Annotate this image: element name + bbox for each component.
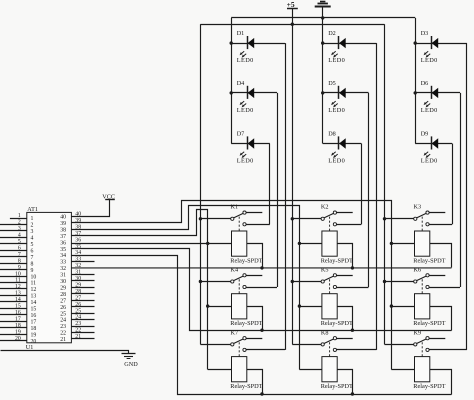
- svg-text:Relay-SPDT: Relay-SPDT: [321, 383, 353, 390]
- wire pin 6 lead: [0, 250, 27, 252]
- wire D4 cathode drop: [277, 93, 279, 287]
- wire K1 NC to LED: [246, 224, 270, 226]
- pin number 7 inside: [31, 255, 34, 261]
- svg-text:LED0: LED0: [421, 57, 438, 64]
- pin number 20 outside: [15, 336, 21, 342]
- wire K4 coil left: [208, 306, 232, 308]
- pin number 31 outside: [75, 270, 81, 276]
- pin number 40 inside: [60, 215, 66, 221]
- svg-text:34: 34: [60, 253, 66, 259]
- relay K5 label: [321, 266, 329, 273]
- wire pin 14 lead: [0, 301, 27, 303]
- svg-text:K3: K3: [414, 204, 422, 211]
- relay K5 switch contacts: [321, 274, 336, 289]
- svg-text:18: 18: [31, 326, 37, 332]
- relay K1 value label: [230, 257, 262, 264]
- relay K2 label: [321, 204, 329, 211]
- pin number 21 inside: [60, 337, 66, 343]
- node K6 coil-left junction: [390, 304, 393, 307]
- svg-text:3: 3: [18, 226, 21, 232]
- wire D6 cathode drop: [460, 93, 462, 287]
- wire pin 25 stub: [71, 313, 94, 315]
- pin number 39 inside: [60, 221, 66, 227]
- pin number 23 outside: [75, 321, 81, 327]
- svg-text:D8: D8: [328, 131, 336, 138]
- pin number 17 inside: [31, 319, 37, 325]
- relay K6 switch contacts: [414, 274, 429, 289]
- svg-text:LED0: LED0: [237, 157, 254, 164]
- node D1 anode junction: [230, 41, 233, 44]
- pin number 15 outside: [15, 304, 21, 310]
- wire K6 common: [385, 281, 414, 283]
- svg-text:24: 24: [60, 318, 66, 324]
- wire K7 coil left: [208, 369, 232, 371]
- wire K4 NC to LED: [246, 287, 277, 289]
- svg-text:K4: K4: [231, 266, 239, 273]
- pin number 10 inside: [31, 274, 37, 280]
- svg-text:9: 9: [31, 268, 34, 274]
- relay K4 label: [231, 266, 239, 273]
- IC U1 AT1 body: [26, 206, 72, 351]
- pin number 36 inside: [60, 240, 66, 246]
- wire D2 cathode drop: [376, 43, 378, 350]
- pin number 21 outside: [75, 334, 81, 340]
- svg-text:10: 10: [31, 274, 37, 280]
- relay K6 value label: [413, 320, 445, 327]
- wire pin 13 lead: [0, 295, 27, 297]
- svg-text:27: 27: [60, 298, 66, 304]
- relay K8 actuation dashed link: [329, 342, 331, 356]
- pin number 1 outside: [18, 213, 21, 219]
- svg-text:LED0: LED0: [237, 107, 254, 114]
- svg-text:2: 2: [18, 220, 21, 226]
- wire pin 15 lead: [0, 308, 27, 310]
- wire K8 common: [292, 344, 321, 346]
- relay K7 switch contacts: [231, 337, 246, 352]
- wire pin36 to K1 coil: [71, 243, 231, 245]
- relay K1 coil: [232, 231, 247, 256]
- relay K4 actuation dashed link: [238, 279, 240, 293]
- relay K8 value label: [321, 383, 353, 390]
- wire K6 coil left: [391, 306, 414, 308]
- wire K3 NC to LED: [429, 224, 452, 226]
- svg-text:20: 20: [31, 339, 37, 345]
- relay K7 coil: [232, 357, 247, 382]
- node K6 common junction: [383, 280, 386, 283]
- svg-text:GND: GND: [124, 361, 138, 368]
- wire pin38 to K2-column coil rail: [72, 206, 300, 370]
- pin number 17 outside: [15, 316, 21, 322]
- relay K2 value label: [321, 257, 353, 264]
- LED D3: [415, 30, 467, 64]
- svg-text:K1: K1: [231, 204, 239, 211]
- svg-text:14: 14: [15, 297, 21, 303]
- relay K5 value label: [321, 320, 353, 327]
- wire K3 coil right: [430, 244, 452, 268]
- relay K7 value label: [230, 383, 262, 390]
- wire D5 cathode drop: [368, 93, 370, 287]
- svg-text:22: 22: [60, 331, 66, 337]
- pin number 12 outside: [15, 284, 21, 290]
- svg-text:19: 19: [31, 332, 37, 338]
- svg-text:D1: D1: [237, 30, 245, 37]
- svg-text:4: 4: [18, 233, 21, 239]
- pin number 40 outside: [75, 212, 81, 218]
- pin number 12 inside: [31, 287, 37, 293]
- wire pin 19 lead: [0, 334, 27, 336]
- relay K4 coil: [232, 294, 247, 319]
- wire K9 coil left: [391, 369, 414, 371]
- svg-text:D3: D3: [421, 30, 429, 37]
- svg-text:15: 15: [31, 307, 37, 313]
- pin number 10 outside: [15, 271, 21, 277]
- pin number 38 inside: [60, 227, 66, 233]
- node +5-rail junction: [291, 23, 294, 26]
- relay K9 label: [414, 329, 422, 336]
- wire pin 30 stub: [71, 280, 94, 282]
- wire D3 cathode drop: [466, 43, 468, 350]
- node D5 anode junction: [321, 91, 324, 94]
- svg-text:+5: +5: [287, 0, 295, 9]
- wire pin37 to K1-column coil rail: [72, 210, 208, 370]
- wire pin 18 lead: [0, 327, 27, 329]
- pin number 11 inside: [31, 281, 37, 287]
- node K5 coil-right junction: [351, 329, 354, 332]
- LED D1: [231, 30, 285, 64]
- node K2 common junction: [291, 217, 294, 220]
- svg-text:8: 8: [31, 261, 34, 267]
- wire K5 coil right: [338, 307, 353, 331]
- wire K3 NO stub: [429, 212, 445, 214]
- svg-text:15: 15: [15, 304, 21, 310]
- svg-text:AT1: AT1: [27, 206, 38, 213]
- svg-text:26: 26: [60, 305, 66, 311]
- pin number 13 outside: [15, 291, 21, 297]
- relay K7 actuation dashed link: [238, 342, 240, 356]
- LED D7: [231, 131, 270, 165]
- wire pin 12 lead: [0, 288, 27, 290]
- relay K6 actuation dashed link: [421, 279, 423, 293]
- wire pin 20 lead: [0, 340, 27, 342]
- pin number 16 inside: [31, 313, 37, 319]
- wire K4 coil right: [247, 307, 263, 331]
- pin number 36 outside: [75, 237, 81, 243]
- svg-text:D9: D9: [421, 131, 429, 138]
- relay K8 label: [321, 329, 329, 336]
- ground GND: [1, 351, 139, 368]
- svg-text:D4: D4: [237, 80, 245, 87]
- pin number 26 inside: [60, 305, 66, 311]
- svg-text:3: 3: [31, 229, 34, 235]
- pin number 32 outside: [75, 263, 81, 269]
- pin number 39 outside: [75, 218, 81, 224]
- pin number 14 outside: [15, 297, 21, 303]
- relay K9 value label: [413, 383, 445, 390]
- wire K4 NO stub: [246, 275, 262, 277]
- wire cathode rail: [231, 17, 415, 19]
- node K5 coil-left junction: [298, 304, 301, 307]
- wire commons rail col1: [200, 24, 202, 344]
- svg-text:7: 7: [31, 255, 34, 261]
- relay K4 switch contacts: [231, 274, 246, 289]
- pin number 19 inside: [31, 332, 37, 338]
- wire pin 26 stub: [71, 306, 94, 308]
- svg-text:39: 39: [60, 221, 66, 227]
- svg-text:5: 5: [31, 242, 34, 248]
- wire K5 coil left: [299, 306, 322, 308]
- svg-text:LED0: LED0: [328, 57, 345, 64]
- svg-text:30: 30: [60, 279, 66, 285]
- svg-text:Relay-SPDT: Relay-SPDT: [230, 383, 262, 390]
- wire K2 coil right: [338, 244, 353, 268]
- relay K6 label: [414, 266, 422, 273]
- pin number 2 inside: [31, 223, 34, 229]
- svg-text:21: 21: [60, 337, 66, 343]
- pin number 3 outside: [18, 226, 21, 232]
- pin number 9 outside: [18, 265, 21, 271]
- node D6 anode junction: [414, 91, 417, 94]
- wire pin 5 lead: [0, 243, 27, 245]
- wire pin 24 stub: [71, 319, 94, 321]
- svg-text:9: 9: [18, 265, 21, 271]
- pin number 32 inside: [60, 266, 66, 272]
- earth ground (top): [315, 2, 331, 18]
- pin number 23 inside: [60, 324, 66, 330]
- pin number 37 inside: [60, 234, 66, 240]
- svg-text:Relay-SPDT: Relay-SPDT: [321, 257, 353, 264]
- node D4 anode junction: [230, 91, 233, 94]
- svg-text:28: 28: [60, 292, 66, 298]
- wire K7 NO stub: [246, 338, 262, 340]
- wire K6 NC to LED: [429, 287, 460, 289]
- wire K2 NO stub: [337, 212, 353, 214]
- svg-text:D5: D5: [328, 80, 336, 87]
- wire pin 1 lead: [10, 218, 27, 220]
- pin number 24 outside: [75, 315, 81, 321]
- svg-text:40: 40: [60, 215, 66, 221]
- svg-text:4: 4: [31, 236, 34, 242]
- wire pin 10 lead: [0, 276, 27, 278]
- wire K9 NC to LED: [429, 349, 467, 351]
- pin number 38 outside: [75, 224, 81, 230]
- svg-text:11: 11: [15, 278, 21, 284]
- svg-text:5: 5: [18, 239, 21, 245]
- svg-text:30: 30: [75, 276, 81, 282]
- svg-text:21: 21: [75, 334, 81, 340]
- svg-text:K9: K9: [414, 329, 422, 336]
- relay K3 coil: [415, 231, 430, 256]
- wire K7 common: [200, 344, 230, 346]
- wire LED column 2 anode bus: [322, 18, 324, 144]
- wire commons rail col2 (+5 drop): [292, 24, 294, 344]
- LED D5: [323, 80, 369, 114]
- svg-text:13: 13: [15, 291, 21, 297]
- svg-text:LED0: LED0: [328, 157, 345, 164]
- svg-text:10: 10: [15, 271, 21, 277]
- pin number 25 inside: [60, 311, 66, 317]
- svg-text:D2: D2: [328, 30, 336, 37]
- wire pin 16 lead: [0, 314, 27, 316]
- svg-text:6: 6: [18, 245, 21, 251]
- relay K3 value label: [413, 257, 445, 264]
- svg-text:Relay-SPDT: Relay-SPDT: [413, 320, 445, 327]
- relay K3 switch contacts: [414, 211, 429, 226]
- pin number 22 outside: [75, 328, 81, 334]
- LED D9: [415, 131, 452, 165]
- pin number 9 inside: [31, 268, 34, 274]
- svg-text:14: 14: [31, 300, 37, 306]
- svg-text:1: 1: [18, 213, 21, 219]
- pin number 34 outside: [75, 250, 81, 256]
- pin number 25 outside: [75, 308, 81, 314]
- wire pin 22 stub: [71, 332, 94, 334]
- pin number 24 inside: [60, 318, 66, 324]
- pin number 11 outside: [15, 278, 21, 284]
- pin number 31 inside: [60, 273, 66, 279]
- svg-text:12: 12: [31, 287, 37, 293]
- svg-text:33: 33: [60, 260, 66, 266]
- wire pin 23 stub: [71, 326, 94, 328]
- relay K9 switch contacts: [414, 337, 429, 352]
- pin number 6 outside: [18, 245, 21, 251]
- pin number 35 inside: [60, 247, 66, 253]
- wire D1 cathode drop: [285, 43, 287, 350]
- svg-text:17: 17: [15, 316, 21, 322]
- wire K5 NC to LED: [337, 287, 369, 289]
- pin number 29 outside: [75, 282, 81, 288]
- wire D8 cathode drop: [361, 144, 363, 225]
- relay K2 switch contacts: [321, 211, 336, 226]
- svg-text:32: 32: [60, 266, 66, 272]
- LED D2: [323, 30, 377, 64]
- node K1 common junction: [199, 217, 202, 220]
- pin number 18 outside: [15, 323, 21, 329]
- svg-text:K2: K2: [321, 204, 329, 211]
- svg-text:LED0: LED0: [421, 107, 438, 114]
- relay K9 coil: [415, 357, 430, 382]
- pin number 27 outside: [75, 295, 81, 301]
- wire commons rail col3: [384, 24, 386, 344]
- relay K9 actuation dashed link: [421, 342, 423, 356]
- svg-text:LED0: LED0: [421, 157, 438, 164]
- wire pin 27 stub: [71, 300, 94, 302]
- svg-text:D6: D6: [421, 80, 429, 87]
- pin number 16 outside: [15, 310, 21, 316]
- node ground-rail junction: [321, 16, 324, 19]
- pin number 5 inside: [31, 242, 34, 248]
- wire pin 3 lead: [0, 230, 27, 232]
- pin number 6 inside: [31, 248, 34, 254]
- pin number 2 outside: [18, 220, 21, 226]
- pin number 29 inside: [60, 285, 66, 291]
- wire K3 common: [385, 218, 414, 220]
- power +5 supply: [287, 0, 298, 24]
- svg-text:Relay-SPDT: Relay-SPDT: [413, 257, 445, 264]
- svg-text:K6: K6: [414, 266, 422, 273]
- relay K8 switch contacts: [321, 337, 336, 352]
- node K4 coil-right junction: [260, 329, 263, 332]
- pin number 1 inside: [31, 216, 34, 222]
- svg-text:12: 12: [15, 284, 21, 290]
- node K1 coil-right junction: [260, 266, 263, 269]
- wire K2 coil left: [299, 243, 322, 245]
- wire pin 29 stub: [71, 287, 94, 289]
- svg-text:37: 37: [60, 234, 66, 240]
- wire pin39 to K3-column coil rail: [72, 201, 392, 370]
- wire K1 common: [200, 218, 230, 220]
- svg-text:13: 13: [31, 294, 37, 300]
- node K4 common junction: [199, 280, 202, 283]
- relay K6 coil: [415, 294, 430, 319]
- wire K4 common: [200, 281, 230, 283]
- node K7 coil-right junction: [260, 392, 263, 395]
- svg-text:36: 36: [75, 237, 81, 243]
- svg-text:Relay-SPDT: Relay-SPDT: [321, 320, 353, 327]
- relay K8 coil: [322, 357, 337, 382]
- wire pin 9 lead: [0, 269, 27, 271]
- svg-text:LED0: LED0: [328, 107, 345, 114]
- svg-text:25: 25: [60, 311, 66, 317]
- wire K9 NO stub: [429, 338, 445, 340]
- wire pin 4 lead: [0, 237, 27, 239]
- svg-text:Relay-SPDT: Relay-SPDT: [413, 383, 445, 390]
- relay K3 actuation dashed link: [421, 217, 423, 231]
- svg-text:36: 36: [60, 240, 66, 246]
- pin number 37 outside: [75, 231, 81, 237]
- wire K9 coil right: [430, 370, 452, 395]
- wire pin 11 lead: [0, 282, 27, 284]
- pin number 8 outside: [18, 258, 21, 264]
- relay K3 label: [414, 204, 422, 211]
- node K1 coil-left junction: [206, 242, 209, 245]
- svg-text:6: 6: [31, 248, 34, 254]
- wire K8 coil left: [299, 369, 322, 371]
- svg-text:K5: K5: [321, 266, 329, 273]
- pin number 28 inside: [60, 292, 66, 298]
- wire LED column 3 anode bus: [415, 18, 417, 144]
- svg-text:19: 19: [15, 329, 21, 335]
- LED D6: [415, 80, 460, 114]
- power VCC: [72, 194, 116, 217]
- node K4 coil-left junction: [206, 304, 209, 307]
- svg-text:2: 2: [31, 223, 34, 229]
- relay K2 coil: [322, 231, 337, 256]
- wire K7 NC to LED: [246, 349, 285, 351]
- relay K1 label: [231, 204, 239, 211]
- svg-text:23: 23: [60, 324, 66, 330]
- wire pin 31 stub: [71, 274, 94, 276]
- node K2 coil-right junction: [351, 266, 354, 269]
- pin number 34 inside: [60, 253, 66, 259]
- node K8 coil-right junction: [351, 392, 354, 395]
- wire D9 cathode drop: [452, 144, 454, 225]
- pin number 30 outside: [75, 276, 81, 282]
- wire K6 NO stub: [429, 275, 445, 277]
- svg-text:U1: U1: [26, 344, 34, 351]
- pin number 19 outside: [15, 329, 21, 335]
- wire K7 coil right: [247, 370, 263, 395]
- svg-text:16: 16: [31, 313, 37, 319]
- wire D7 cathode drop: [269, 144, 271, 225]
- pin number 4 outside: [18, 233, 21, 239]
- pin number 18 inside: [31, 326, 37, 332]
- wire pin 28 stub: [71, 293, 94, 295]
- pin number 5 outside: [18, 239, 21, 245]
- svg-text:Relay-SPDT: Relay-SPDT: [230, 257, 262, 264]
- pin number 15 inside: [31, 307, 37, 313]
- pin number 7 outside: [18, 252, 21, 258]
- svg-text:38: 38: [60, 227, 66, 233]
